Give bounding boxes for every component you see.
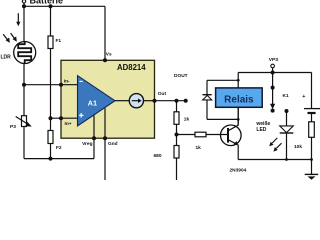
svg-text:DOUT: DOUT	[174, 73, 188, 79]
svg-text:AD8214: AD8214	[117, 63, 146, 72]
svg-text:2N3904: 2N3904	[230, 167, 247, 173]
resistor 10k	[294, 122, 314, 150]
wire	[50, 144, 52, 159]
LED arrow 2	[273, 143, 281, 151]
wire	[272, 68, 274, 73]
wire Gnd down	[104, 138, 106, 180]
svg-text:10k: 10k	[294, 144, 302, 150]
wire emitter rail	[238, 159, 311, 161]
wire	[23, 3, 25, 42]
wire base	[177, 134, 196, 136]
wire Out	[155, 100, 186, 102]
node	[237, 118, 240, 121]
potentiometer P3	[10, 116, 32, 130]
resistor 1k vertical	[174, 101, 189, 125]
pin Out	[153, 99, 157, 103]
wire	[93, 138, 95, 158]
node	[22, 83, 26, 87]
relay contact K1	[270, 73, 289, 113]
LDR	[14, 42, 36, 64]
svg-text:A1: A1	[88, 99, 97, 108]
svg-text:P3: P3	[10, 124, 16, 130]
wire relay top	[237, 73, 239, 88]
resistor 1k horizontal	[195, 132, 206, 151]
battery cell	[302, 94, 320, 113]
svg-text:Gnd: Gnd	[108, 141, 118, 147]
transistor Q1 2N3904	[221, 125, 247, 173]
node	[22, 4, 26, 8]
svg-text:1k: 1k	[196, 145, 202, 151]
svg-text:Vs: Vs	[106, 51, 112, 57]
node	[310, 158, 313, 161]
svg-text:LED: LED	[256, 127, 266, 133]
node	[175, 99, 179, 103]
svg-text:K1: K1	[283, 93, 289, 99]
wire diode top	[207, 79, 238, 81]
svg-text:LDR: LDR	[1, 55, 12, 61]
wire	[143, 100, 154, 102]
wire right branch	[311, 73, 313, 109]
wire LED cathode	[286, 133, 288, 159]
wire Gnd internal	[104, 108, 106, 138]
wire	[50, 49, 52, 131]
svg-text:1k: 1k	[184, 117, 190, 123]
pin Vs	[103, 58, 107, 62]
wire relay bottom	[237, 107, 239, 125]
svg-text:Batterie: Batterie	[30, 0, 64, 5]
wire collector	[237, 107, 239, 125]
terminal VPS	[271, 64, 275, 68]
LED D2	[280, 126, 294, 133]
svg-text:Out: Out	[158, 91, 167, 97]
current direction arrow	[16, 13, 20, 26]
pin Vreg	[92, 136, 96, 140]
wire	[176, 158, 178, 180]
pin In+	[59, 116, 63, 120]
pin Gnd	[103, 136, 107, 140]
wire apex to current source	[115, 100, 129, 102]
terminal DOUT	[184, 99, 188, 103]
wire In-	[24, 84, 78, 86]
wire	[176, 124, 178, 145]
node	[49, 4, 53, 8]
resistor F2	[48, 131, 62, 152]
op-amp A1	[78, 76, 116, 126]
resistor 680	[154, 146, 180, 160]
svg-text:VPS: VPS	[269, 57, 279, 63]
wire emitter	[237, 145, 239, 160]
node	[49, 157, 53, 161]
current source	[129, 94, 143, 108]
svg-text:Vreg: Vreg	[82, 141, 92, 147]
svg-text:F1: F1	[56, 38, 62, 44]
node	[49, 116, 53, 120]
LED arrow 1	[269, 138, 277, 146]
relay coil Relais	[216, 88, 263, 107]
wire	[311, 114, 313, 122]
diode D1	[203, 80, 212, 119]
wire LED anode	[286, 111, 288, 126]
LDR light arrow 2	[11, 33, 17, 42]
node	[175, 133, 179, 137]
svg-text:In+: In+	[65, 121, 72, 127]
ground	[305, 174, 319, 179]
resistor F1	[48, 6, 61, 48]
node	[285, 109, 289, 113]
svg-text:F2: F2	[56, 145, 62, 151]
svg-text:+: +	[302, 94, 305, 100]
wire In+	[51, 117, 78, 119]
node	[285, 158, 288, 161]
battery terminal	[22, 0, 63, 5]
node	[237, 79, 240, 82]
wire	[311, 137, 313, 174]
wire	[206, 134, 228, 136]
wire	[24, 158, 94, 160]
svg-text:680: 680	[154, 153, 162, 159]
pin In-	[59, 83, 63, 87]
IC body AD8214	[61, 60, 155, 138]
LDR light arrow 1	[3, 34, 10, 43]
svg-text:In-: In-	[64, 78, 70, 84]
svg-text:Relais: Relais	[224, 95, 254, 106]
node	[271, 71, 275, 75]
wire	[23, 64, 25, 159]
wire	[24, 5, 105, 7]
wire VPS rail	[238, 72, 311, 74]
wire diode bottom	[207, 118, 238, 120]
wire Vs	[104, 6, 106, 60]
wire Vreg internal	[93, 115, 95, 138]
